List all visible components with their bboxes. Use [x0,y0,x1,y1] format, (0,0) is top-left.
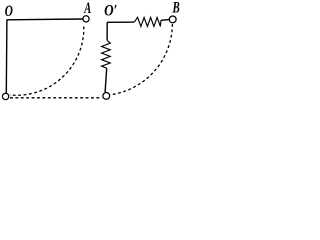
node bottom-left bob [2,93,8,99]
spring (vertical, resistor zigzag) [102,40,111,68]
node A [83,16,89,22]
svg-text:A: A [83,0,91,17]
wire O' corner to spring [107,21,134,23]
svg-text:B: B [172,0,180,16]
dashed arc trajectory of B [110,24,172,95]
spring (horizontal, resistor zigzag) [134,17,161,26]
wire O' vertical upper [106,22,108,40]
wire O-A horizontal rod [7,18,83,21]
svg-text:O: O [5,2,13,19]
wire spring to B [161,19,169,22]
dashed bottom line [10,97,102,99]
node B [169,16,176,23]
dashed arc trajectory of A [10,27,84,96]
wire spring to bottom bob [105,68,107,92]
wire O vertical rod [5,20,8,93]
node bottom-middle bob [103,93,110,100]
svg-text:O′: O′ [104,2,117,19]
